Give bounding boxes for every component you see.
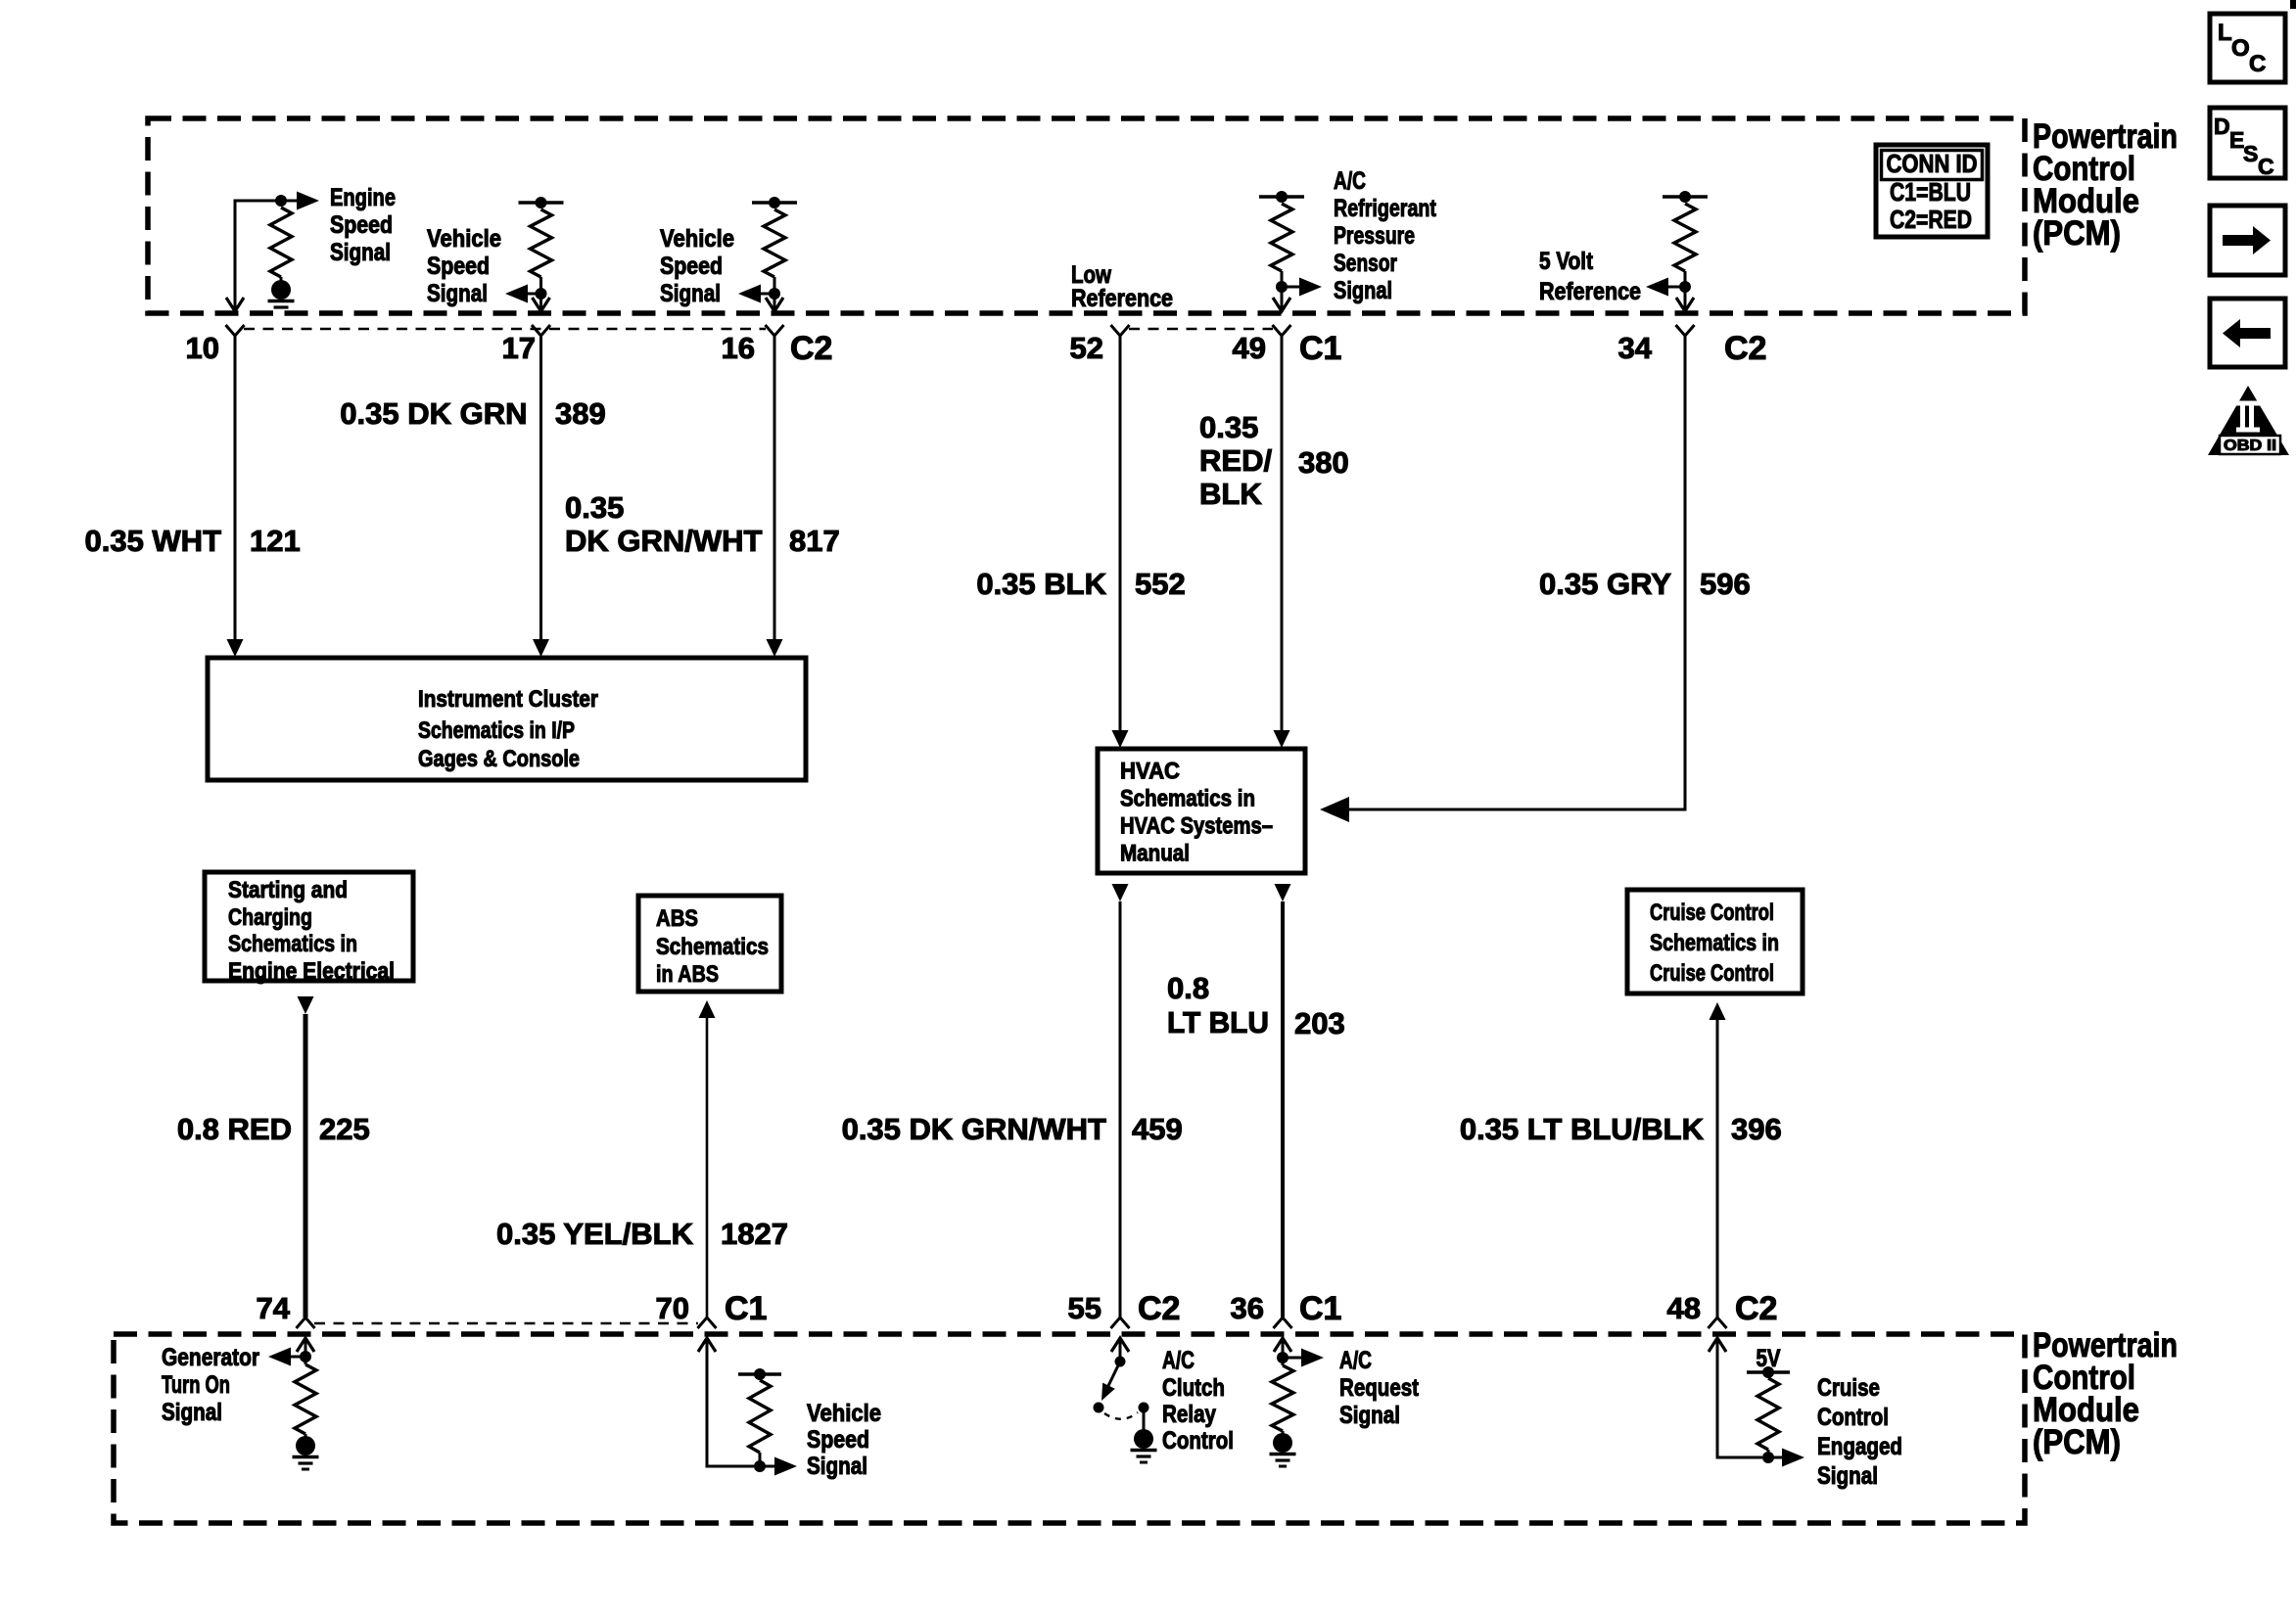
svg-text:C1=BLU: C1=BLU: [1890, 177, 1971, 207]
junction dot pin48: [1762, 1452, 1774, 1463]
svg-text:52: 52: [1070, 331, 1103, 365]
ground: A/C request signal: [1270, 1433, 1296, 1466]
chevron arrow: pin 16 exit: [766, 298, 783, 311]
junction dot pin16 low: [769, 288, 780, 300]
svg-text:HVAC Systems–: HVAC Systems–: [1120, 813, 1273, 840]
svg-text:34: 34: [1618, 331, 1653, 365]
svg-text:36: 36: [1231, 1291, 1264, 1325]
svg-text:121: 121: [250, 524, 301, 558]
junction dot pin70: [754, 1460, 766, 1472]
PCM top module dashed box: [148, 118, 2025, 313]
svg-text:Signal: Signal: [1817, 1462, 1878, 1490]
icon: DESC box: [2210, 108, 2285, 178]
switch contact dot: [1094, 1403, 1104, 1413]
corner scan mark: [2290, 0, 2296, 9]
arrow: A/C refrigerant signal pointer: [1282, 286, 1299, 289]
box: Starting and Charging Schematics: [205, 872, 413, 981]
resistor: cruise control engaged: [1757, 1378, 1779, 1450]
junction dot pin74: [300, 1351, 311, 1363]
icon: forward arrow box: [2210, 206, 2285, 275]
svg-text:552: 552: [1135, 567, 1186, 601]
resistor: engine speed signal: [270, 208, 292, 277]
svg-text:Cruise Control: Cruise Control: [1650, 900, 1774, 926]
icon: OBD II triangle: [2208, 386, 2289, 455]
junction dot pin36: [1277, 1352, 1289, 1363]
svg-text:C2: C2: [1724, 330, 1766, 367]
resistor: 5 volt reference: [1674, 204, 1696, 271]
svg-text:S: S: [2243, 141, 2258, 166]
junction dot pin48 bar: [1762, 1366, 1774, 1378]
svg-text:ABS: ABS: [656, 905, 698, 932]
svg-text:Charging: Charging: [228, 904, 312, 931]
svg-text:Signal: Signal: [807, 1453, 867, 1480]
ground: A/C clutch relay: [1131, 1429, 1157, 1462]
svg-text:Reference: Reference: [1071, 285, 1173, 312]
svg-text:C1: C1: [1299, 1290, 1341, 1327]
svg-text:Signal: Signal: [330, 239, 391, 266]
box: Cruise Control Schematics: [1627, 890, 1803, 993]
wire: pin49 top bar: [1259, 195, 1304, 198]
svg-text:0.35 DK GRN/WHT: 0.35 DK GRN/WHT: [842, 1112, 1106, 1146]
svg-text:0.35 LT BLU/BLK: 0.35 LT BLU/BLK: [1460, 1112, 1705, 1146]
chevron arrow: pin 48 entry: [1709, 1338, 1726, 1352]
svg-text:Schematics: Schematics: [656, 934, 769, 960]
wire: pin48 resistor top bar: [1747, 1370, 1790, 1373]
box: ABS Schematics: [638, 896, 781, 992]
svg-text:DK GRN/WHT: DK GRN/WHT: [565, 524, 763, 558]
junction dot pin17 top: [536, 197, 547, 208]
wire 225 RED (starting box to pin74): [298, 996, 314, 1014]
svg-text:459: 459: [1132, 1112, 1183, 1146]
wire 389 DK GRN (pin17 to instrument cluster): [539, 336, 542, 640]
svg-text:48: 48: [1667, 1291, 1701, 1325]
connector terminal pin 10: [226, 325, 245, 336]
arrow: generator turn on pointer: [290, 1356, 305, 1359]
svg-text:Speed: Speed: [807, 1426, 869, 1454]
svg-text:Engine Electrical: Engine Electrical: [228, 958, 395, 985]
arrow: cruise engaged pointer: [1768, 1456, 1783, 1459]
wire 380 RED/BLK (pin49 to HVAC): [1281, 336, 1284, 731]
connector terminal pin 70: [698, 1317, 717, 1328]
svg-text:in ABS: in ABS: [656, 961, 719, 988]
chevron arrow: pin 55 entry: [1111, 1338, 1129, 1352]
junction dot pin17 low: [536, 288, 547, 300]
svg-text:380: 380: [1298, 445, 1349, 480]
svg-text:Request: Request: [1339, 1374, 1420, 1402]
svg-text:(PCM): (PCM): [2033, 1423, 2121, 1461]
switch arm arrowhead: [1096, 1383, 1115, 1404]
connector terminal pin 49: [1273, 325, 1291, 336]
wire: pin74 stub: [305, 1338, 307, 1364]
resistor: vehicle speed signal bottom: [749, 1380, 771, 1453]
svg-text:Schematics in: Schematics in: [1120, 786, 1255, 812]
svg-text:Vehicle: Vehicle: [807, 1400, 881, 1427]
svg-text:(PCM): (PCM): [2033, 214, 2121, 253]
svg-text:C1: C1: [1299, 330, 1341, 367]
wire 817 DK GRN/WHT (pin16 to instrument cluster): [773, 336, 776, 640]
svg-text:C2: C2: [790, 330, 832, 367]
svg-text:OBD II: OBD II: [2224, 438, 2276, 454]
svg-text:596: 596: [1700, 567, 1751, 601]
svg-text:Speed: Speed: [330, 211, 393, 239]
connector terminal pin 55: [1111, 1317, 1130, 1328]
wire: pin49 resistor to junction: [1281, 271, 1284, 311]
wire 396 LT BLU/BLK (cruise box to pin48): [1710, 1002, 1726, 1020]
svg-text:Speed: Speed: [427, 253, 490, 280]
wire: pin36 resistor to ground: [1282, 1431, 1285, 1435]
wire 459 DK GRN/WHT (HVAC to pin55): [1112, 884, 1129, 901]
connector dashed line pins 10-17-16: [244, 328, 766, 330]
svg-text:0.35 GRY: 0.35 GRY: [1539, 567, 1671, 601]
junction dot pin34 top: [1679, 191, 1691, 203]
svg-text:Pressure: Pressure: [1334, 222, 1415, 250]
svg-text:RED/: RED/: [1199, 443, 1272, 478]
svg-text:Clutch: Clutch: [1162, 1374, 1225, 1402]
svg-text:49: 49: [1233, 331, 1266, 365]
svg-text:Vehicle: Vehicle: [427, 225, 501, 253]
wire: pin48 internal L: [1717, 1338, 1762, 1457]
wire: switch to ground: [1143, 1408, 1146, 1430]
box: Instrument Cluster Schematics: [208, 658, 806, 780]
wire: engine speed signal internal: [235, 201, 281, 311]
junction dot engine speed: [275, 195, 287, 207]
svg-text:1827: 1827: [721, 1217, 788, 1251]
icon: back arrow box: [2210, 299, 2285, 367]
svg-text:A/C: A/C: [1339, 1347, 1372, 1374]
svg-text:C2: C2: [1138, 1290, 1180, 1327]
wire: pin16 resistor to junction: [773, 277, 776, 311]
wire: pin17 resistor to junction: [539, 277, 542, 311]
connector terminal pin 74: [297, 1317, 315, 1328]
icon: LOC box: [2210, 14, 2285, 82]
svg-text:0.35 DK GRN: 0.35 DK GRN: [340, 396, 527, 431]
svg-text:17: 17: [502, 331, 536, 365]
wire: pin48 resistor lead: [1767, 1450, 1770, 1457]
svg-text:Signal: Signal: [427, 280, 488, 307]
svg-text:Engine: Engine: [330, 184, 396, 211]
svg-text:70: 70: [656, 1291, 689, 1325]
chevron arrow: pin 49 exit: [1273, 298, 1290, 311]
connector terminal pin 17: [532, 325, 550, 336]
svg-text:0.35: 0.35: [565, 490, 624, 525]
switch arm: A/C clutch relay: [1105, 1362, 1120, 1392]
svg-text:L: L: [2218, 20, 2232, 46]
svg-text:Cruise Control: Cruise Control: [1650, 960, 1774, 987]
svg-text:Signal: Signal: [660, 280, 721, 307]
svg-text:BLK: BLK: [1199, 477, 1262, 511]
chevron arrow: pin 17 exit: [533, 298, 550, 311]
wire: pin70 resistor lead: [759, 1453, 762, 1466]
wire: pin36 stub: [1282, 1338, 1285, 1365]
svg-text:C2=RED: C2=RED: [1890, 205, 1972, 234]
wire 203 LT BLU (HVAC to pin36): [1275, 884, 1291, 901]
svg-text:CONN ID: CONN ID: [1887, 149, 1978, 178]
svg-text:0.8: 0.8: [1167, 971, 1209, 1005]
arrow: vehicle speed signal pointer bottom: [760, 1465, 774, 1468]
connector terminal pin 52: [1111, 325, 1130, 336]
chevron arrow: pin 74 entry: [297, 1338, 314, 1352]
svg-text:0.35 YEL/BLK: 0.35 YEL/BLK: [496, 1217, 694, 1251]
svg-text:Manual: Manual: [1120, 841, 1190, 867]
wire: resistor to ground: [280, 277, 283, 283]
wire: pin70 resistor top bar: [738, 1372, 781, 1375]
svg-text:Starting and: Starting and: [228, 877, 348, 903]
svg-text:0.35 WHT: 0.35 WHT: [84, 524, 221, 558]
svg-text:Turn On: Turn On: [162, 1371, 230, 1399]
junction dot pin55 pivot: [1115, 1357, 1126, 1367]
connector terminal pin 16: [766, 325, 784, 336]
box: HVAC Schematics: [1098, 749, 1305, 873]
junction dot pin49 top: [1276, 191, 1288, 203]
junction dot pin70 bar: [754, 1368, 766, 1380]
svg-text:Sensor: Sensor: [1334, 250, 1397, 277]
svg-text:A/C: A/C: [1334, 167, 1366, 195]
connector terminal pin 48: [1709, 1317, 1727, 1328]
svg-text:O: O: [2231, 35, 2250, 62]
svg-text:Vehicle: Vehicle: [660, 225, 734, 253]
arrow: A/C request pointer: [1283, 1357, 1302, 1360]
arrow: vehicle speed signal pointer 16: [760, 293, 774, 296]
junction dot pin34 low: [1679, 281, 1691, 293]
wire: pin55 stub: [1119, 1338, 1122, 1362]
junction dot pin16 top: [769, 197, 780, 208]
wire: pin74 resistor to ground: [305, 1434, 307, 1438]
svg-text:16: 16: [722, 331, 755, 365]
svg-text:Schematics in: Schematics in: [228, 931, 357, 957]
svg-text:225: 225: [319, 1112, 370, 1146]
wire: pin16 top bar: [752, 201, 797, 204]
switch dashed arc: [1104, 1412, 1138, 1419]
svg-text:Speed: Speed: [660, 253, 723, 280]
svg-text:0.35: 0.35: [1199, 410, 1258, 444]
junction dot pin49 low: [1276, 281, 1288, 293]
wire 121 WHT (pin10 to instrument cluster): [234, 336, 237, 640]
svg-text:D: D: [2214, 114, 2230, 139]
chevron arrow: pin 70 entry: [698, 1338, 716, 1352]
svg-text:C1: C1: [725, 1290, 767, 1327]
svg-text:396: 396: [1731, 1112, 1782, 1146]
svg-text:Reference: Reference: [1539, 278, 1641, 305]
svg-text:74: 74: [257, 1291, 291, 1325]
chevron arrow: pin 36 entry: [1274, 1338, 1291, 1352]
svg-text:5 Volt: 5 Volt: [1539, 248, 1594, 275]
svg-text:Instrument Cluster: Instrument Cluster: [418, 686, 598, 713]
ground: generator turn on: [293, 1436, 319, 1469]
resistor: A/C refrigerant pressure sensor: [1271, 204, 1292, 271]
CONN ID table box: [1876, 145, 1988, 237]
svg-text:Generator: Generator: [162, 1344, 259, 1371]
svg-text:HVAC: HVAC: [1120, 759, 1180, 785]
connector dashed line pins 74-70: [314, 1322, 698, 1324]
ground: engine speed: [268, 280, 295, 307]
svg-text:C2: C2: [1735, 1290, 1777, 1327]
svg-text:Control: Control: [1817, 1404, 1889, 1431]
svg-text:55: 55: [1068, 1291, 1101, 1325]
PCM bottom module dashed box: [114, 1334, 2025, 1523]
svg-text:10: 10: [186, 331, 219, 365]
arrow: vehicle speed signal pointer 17: [527, 293, 541, 296]
resistor: vehicle speed signal 16: [764, 209, 785, 277]
svg-text:C: C: [2258, 154, 2274, 179]
connector terminal pin 36: [1274, 1317, 1292, 1328]
svg-text:203: 203: [1294, 1006, 1345, 1040]
wire: pin34 resistor to junction: [1684, 271, 1687, 311]
svg-text:Schematics in I/P: Schematics in I/P: [418, 717, 575, 744]
svg-text:Control: Control: [1162, 1427, 1234, 1455]
resistor: generator turn on: [295, 1364, 316, 1434]
svg-text:0.8 RED: 0.8 RED: [177, 1112, 292, 1146]
svg-text:A/C: A/C: [1162, 1347, 1195, 1374]
wire 1827 YEL/BLK (ABS box to pin70): [699, 1000, 716, 1018]
connector dashed line pins 52-49: [1129, 328, 1273, 330]
resistor: A/C request signal: [1272, 1365, 1293, 1431]
wire: pin70 internal L: [707, 1338, 754, 1466]
wire: pin34 top bar: [1663, 195, 1708, 198]
arrow: engine speed signal pointer: [281, 200, 298, 203]
connector terminal pin 34: [1676, 325, 1695, 336]
svg-text:389: 389: [555, 396, 606, 431]
svg-text:Signal: Signal: [1334, 277, 1392, 304]
svg-text:817: 817: [789, 524, 840, 558]
svg-text:C: C: [2249, 51, 2266, 77]
svg-text:Relay: Relay: [1162, 1401, 1216, 1428]
svg-text:Signal: Signal: [162, 1399, 222, 1426]
wire 596 GRY (pin34 to HVAC): [1349, 336, 1685, 809]
wire: pin17 top bar: [519, 201, 564, 204]
svg-text:Cruise: Cruise: [1817, 1374, 1880, 1402]
svg-text:Engaged: Engaged: [1817, 1433, 1902, 1460]
wire 552 BLK (pin52 to HVAC): [1119, 336, 1122, 731]
svg-text:Signal: Signal: [1339, 1402, 1400, 1429]
svg-text:LT BLU: LT BLU: [1167, 1005, 1269, 1039]
chevron arrow: pin 10 exit: [226, 298, 244, 311]
svg-text:Gages & Console: Gages & Console: [418, 746, 580, 772]
switch right contact dot: [1139, 1403, 1149, 1413]
svg-text:Refrigerant: Refrigerant: [1334, 195, 1437, 222]
svg-text:Schematics in: Schematics in: [1650, 930, 1779, 956]
chevron arrow: pin 34 exit: [1676, 298, 1694, 311]
arrow: 5 volt reference pointer: [1667, 286, 1685, 289]
resistor: vehicle speed signal 17: [531, 209, 552, 277]
svg-text:0.35 BLK: 0.35 BLK: [976, 567, 1106, 601]
